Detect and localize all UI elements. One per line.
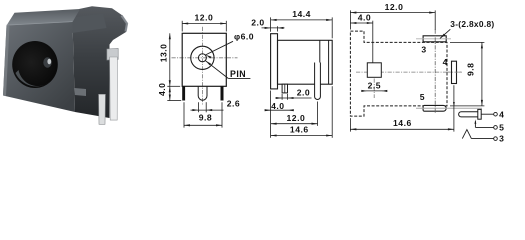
svg-text:4.0: 4.0 [157, 83, 167, 96]
svg-text:12.0: 12.0 [195, 13, 214, 23]
svg-text:14.6: 14.6 [290, 124, 309, 134]
svg-text:φ6.0: φ6.0 [234, 32, 254, 42]
svg-text:3-(2.8x0.8): 3-(2.8x0.8) [450, 19, 494, 29]
svg-text:12.0: 12.0 [287, 113, 306, 123]
svg-text:2.6: 2.6 [227, 99, 240, 109]
svg-text:2.0: 2.0 [251, 18, 264, 28]
svg-text:9.8: 9.8 [466, 63, 476, 76]
svg-text:2.5: 2.5 [368, 81, 381, 91]
svg-text:3: 3 [421, 45, 426, 55]
svg-text:4: 4 [443, 57, 448, 67]
svg-text:5: 5 [420, 92, 425, 102]
svg-text:4: 4 [499, 109, 504, 119]
svg-text:PIN: PIN [230, 69, 246, 79]
svg-text:14.4: 14.4 [292, 9, 311, 19]
svg-text:9.8: 9.8 [199, 113, 212, 123]
svg-text:14.6: 14.6 [393, 118, 412, 128]
svg-text:12.0: 12.0 [385, 2, 404, 12]
svg-text:13.0: 13.0 [158, 44, 168, 63]
svg-text:4.0: 4.0 [358, 13, 371, 23]
svg-text:4.0: 4.0 [271, 101, 284, 111]
svg-text:3: 3 [499, 134, 504, 144]
svg-text:2.0: 2.0 [297, 87, 310, 97]
svg-text:5: 5 [499, 122, 504, 132]
